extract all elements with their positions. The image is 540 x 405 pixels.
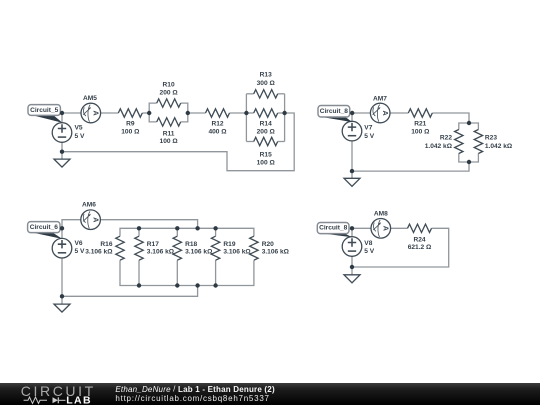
- node junction: [175, 283, 179, 287]
- svg-text:R17: R17: [147, 241, 159, 248]
- svg-text:621.2 Ω: 621.2 Ω: [408, 244, 432, 251]
- resistor R23: [474, 130, 482, 154]
- ammeter AM6: [81, 210, 101, 230]
- svg-text:5 V: 5 V: [364, 133, 374, 140]
- node junction: [467, 160, 471, 164]
- wire: [278, 93, 285, 95]
- svg-text:200 Ω: 200 Ω: [160, 89, 179, 96]
- resistor R22: [455, 130, 463, 154]
- wire: [138, 260, 140, 285]
- svg-text:5 V: 5 V: [364, 248, 374, 255]
- svg-text:400 Ω: 400 Ω: [208, 129, 227, 136]
- svg-text:3.106 kΩ: 3.106 kΩ: [147, 249, 175, 256]
- node flag Circuit_5: [28, 105, 62, 123]
- resistor R13: [254, 90, 278, 98]
- voltage source V7: [342, 121, 362, 141]
- wire: [391, 227, 408, 229]
- wire: [352, 162, 469, 171]
- svg-text:Circuit_8: Circuit_8: [320, 108, 349, 115]
- node junction: [244, 111, 248, 115]
- node flag Circuit_8: [317, 223, 352, 238]
- svg-text:100 Ω: 100 Ω: [257, 160, 276, 167]
- wire: [142, 112, 149, 114]
- wire: [138, 228, 140, 236]
- svg-text:Circuit_6: Circuit_6: [30, 224, 59, 231]
- svg-text:Circuit_5: Circuit_5: [30, 107, 59, 114]
- node junction: [467, 121, 471, 125]
- svg-text:R11: R11: [163, 130, 175, 137]
- resistor R17: [135, 236, 143, 260]
- svg-text:100 Ω: 100 Ω: [411, 129, 430, 136]
- svg-text:200 Ω: 200 Ω: [257, 129, 276, 136]
- node flag Circuit_6: [28, 222, 63, 239]
- CircuitLab logo: [21, 383, 96, 405]
- svg-text:AM8: AM8: [374, 210, 388, 217]
- wire: [176, 260, 178, 285]
- wire: [278, 112, 285, 114]
- wire: [352, 227, 371, 229]
- wire: [62, 220, 81, 239]
- resistor R15: [254, 137, 278, 145]
- svg-text:3.106 kΩ: 3.106 kΩ: [85, 249, 113, 256]
- svg-text:AM7: AM7: [373, 96, 387, 103]
- svg-text:V6: V6: [75, 240, 83, 247]
- wire V8 bottom stub: [351, 256, 353, 275]
- node junction: [350, 111, 354, 115]
- wire V7 bottom stub: [351, 141, 353, 178]
- wire top rail: [120, 228, 254, 236]
- node junction: [60, 226, 64, 230]
- svg-text:5 V: 5 V: [75, 133, 85, 140]
- resistor R20: [250, 236, 258, 260]
- resistor R21: [408, 109, 432, 117]
- node junction: [213, 226, 217, 230]
- svg-text:100 Ω: 100 Ω: [160, 138, 179, 145]
- voltage source V8: [342, 237, 362, 257]
- wire: [215, 260, 217, 285]
- svg-text:1.042 kΩ: 1.042 kΩ: [485, 143, 513, 150]
- svg-text:R12: R12: [211, 120, 223, 127]
- node junction: [137, 283, 141, 287]
- wire V6 bottom stub: [61, 258, 63, 304]
- ground: [344, 275, 360, 283]
- wire: [230, 112, 247, 114]
- node junction: [195, 226, 199, 230]
- wire: [101, 112, 119, 114]
- wire: [246, 141, 253, 143]
- resistor R9: [118, 109, 142, 117]
- wire: [62, 286, 198, 297]
- svg-text:1.042 kΩ: 1.042 kΩ: [425, 143, 453, 150]
- svg-text:R9: R9: [126, 120, 135, 127]
- ground: [344, 178, 360, 186]
- wire V8 top stub: [351, 228, 353, 236]
- svg-text:R21: R21: [414, 120, 426, 127]
- resistor R11: [157, 118, 181, 126]
- svg-text:100 Ω: 100 Ω: [121, 129, 140, 136]
- wire R22/R23 top bracket: [459, 123, 479, 130]
- resistor R19: [211, 236, 219, 260]
- resistor R14: [254, 109, 278, 117]
- svg-text:Ethan_DeNure / Lab 1 - Ethan D: Ethan_DeNure / Lab 1 - Ethan Denure (2): [115, 384, 275, 393]
- wire: [246, 93, 253, 95]
- svg-text:Circuit_8: Circuit_8: [319, 225, 348, 232]
- svg-text:AM5: AM5: [83, 95, 97, 102]
- wire: [246, 112, 253, 114]
- svg-text:V5: V5: [75, 125, 83, 132]
- node junction: [60, 294, 64, 298]
- ammeter AM8: [371, 219, 391, 239]
- node junction: [282, 111, 286, 115]
- node flag Circuit_8 (top right): [318, 106, 352, 123]
- resistor R10: [157, 99, 181, 107]
- svg-text:http://circuitlab.com/csbq8eh7: http://circuitlab.com/csbq8eh7n5337: [115, 394, 269, 403]
- wire V7 top stub: [351, 113, 353, 121]
- wire bottom rail: [120, 260, 254, 285]
- ammeter AM7: [370, 103, 390, 123]
- svg-text:R18: R18: [185, 241, 197, 248]
- svg-text:LAB: LAB: [66, 394, 92, 405]
- resistor R24: [408, 224, 432, 232]
- ground: [54, 304, 70, 312]
- node junction: [350, 169, 354, 173]
- svg-text:3.106 kΩ: 3.106 kΩ: [223, 249, 251, 256]
- node junction: [137, 226, 141, 230]
- wire return path: [62, 113, 294, 171]
- wire: [432, 113, 469, 123]
- wire: [352, 112, 370, 114]
- voltage source V5: [52, 123, 72, 143]
- wire V5 top stub: [61, 113, 63, 123]
- svg-text:R20: R20: [262, 241, 274, 248]
- svg-text:3.106 kΩ: 3.106 kΩ: [185, 249, 213, 256]
- wire: [278, 141, 285, 143]
- resistor R12: [206, 109, 230, 117]
- node junction: [195, 283, 199, 287]
- svg-text:R23: R23: [485, 134, 497, 141]
- svg-text:R19: R19: [223, 241, 235, 248]
- svg-text:V8: V8: [364, 240, 372, 247]
- svg-text:300 Ω: 300 Ω: [257, 80, 276, 87]
- wire V5 bottom stub: [61, 142, 63, 159]
- svg-text:R15: R15: [260, 152, 272, 159]
- wire R10/R11 bracket: [149, 103, 157, 113]
- node junction: [175, 226, 179, 230]
- node junction: [350, 226, 354, 230]
- wire: [390, 112, 408, 114]
- wire R13/R14/R15 bracket left: [245, 94, 247, 142]
- svg-text:R14: R14: [260, 120, 272, 127]
- resistor R18: [173, 236, 181, 260]
- svg-text:V7: V7: [364, 125, 372, 132]
- ammeter AM5: [81, 103, 101, 123]
- wire: [100, 220, 197, 229]
- node junction: [213, 283, 217, 287]
- svg-text:R16: R16: [100, 241, 112, 248]
- node junction: [60, 150, 64, 154]
- wire: [176, 228, 178, 236]
- ground: [54, 159, 70, 167]
- svg-text:R24: R24: [413, 237, 425, 244]
- svg-text:3.106 kΩ: 3.106 kΩ: [262, 249, 290, 256]
- wire R22/R23 bottom bracket: [459, 153, 479, 162]
- node junction: [350, 265, 354, 269]
- svg-text:R22: R22: [440, 134, 452, 141]
- node junction: [147, 111, 151, 115]
- wire: [188, 112, 206, 114]
- resistor R16: [116, 236, 124, 260]
- wire: [352, 228, 449, 267]
- svg-text:R10: R10: [163, 82, 175, 89]
- node junction: [186, 111, 190, 115]
- wire: [62, 112, 81, 114]
- voltage source V6: [52, 238, 72, 258]
- wire: [181, 103, 188, 122]
- wire: [149, 113, 157, 122]
- svg-text:5 V: 5 V: [75, 248, 85, 255]
- svg-text:AM6: AM6: [82, 202, 96, 209]
- node A junction: [60, 111, 64, 115]
- wire: [215, 228, 217, 236]
- svg-text:R13: R13: [260, 72, 272, 79]
- wire R13/R14/R15 bracket right: [284, 94, 286, 142]
